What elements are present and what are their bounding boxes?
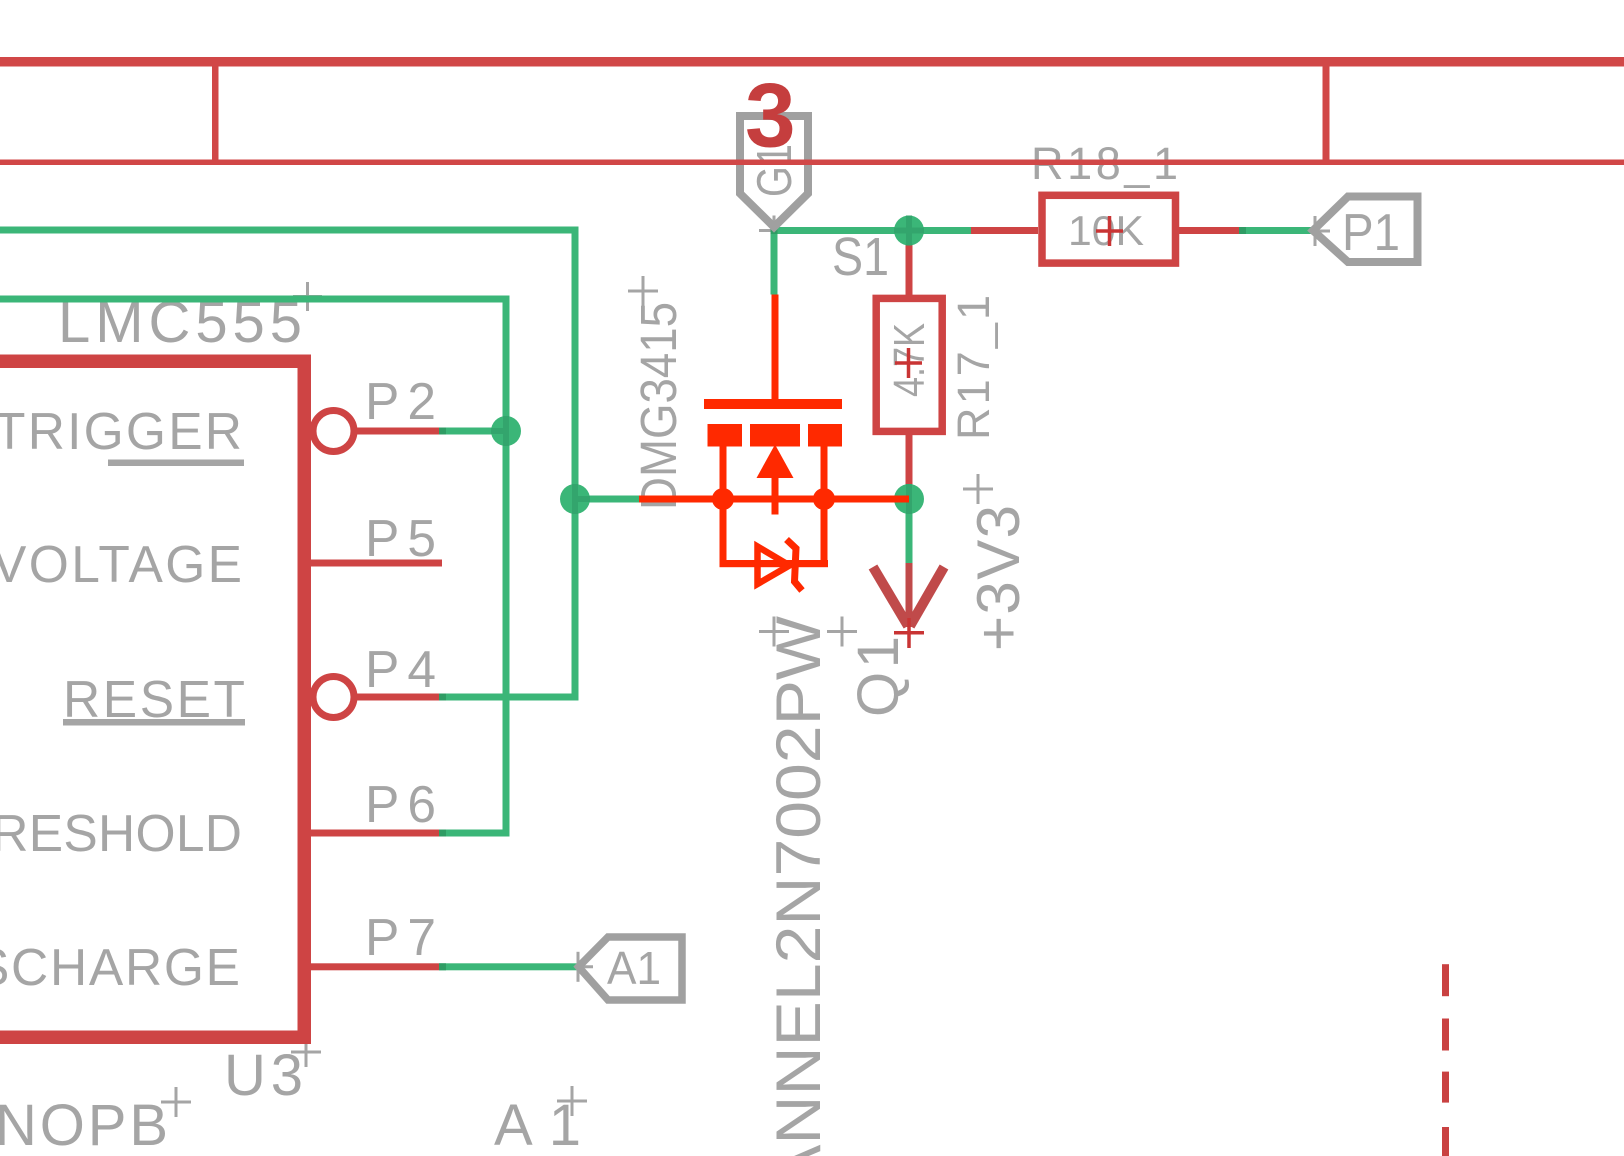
- pin line THRESHOLD P6: [311, 830, 439, 837]
- wire overlap mark R18 right: [1239, 227, 1246, 234]
- wire vertical at x506: [503, 296, 510, 837]
- resistor R18 left pin: [971, 227, 1038, 234]
- Q1 body loop bottom: [720, 560, 829, 567]
- wire RESET to vertical: [439, 694, 575, 701]
- underline TRIGGER: [108, 460, 244, 467]
- Q1 substrate stem: [772, 478, 779, 515]
- flag P1: [1313, 197, 1418, 263]
- Q1 drain stub: [821, 447, 828, 500]
- resistor R18 right pin: [1179, 227, 1246, 234]
- wire net B second horizontal: [0, 296, 510, 303]
- origin cross flag P1: [1300, 216, 1330, 246]
- Q1 body loop left: [720, 499, 727, 567]
- origin cross NOPB: [161, 1087, 191, 1117]
- Q1 body loop right: [821, 499, 828, 567]
- svg-text:R17_1: R17_1: [948, 295, 999, 440]
- pin line RESET P4: [355, 694, 439, 701]
- origin cross CHANNEL text: [759, 617, 789, 647]
- junction dot gate branch: [560, 484, 590, 514]
- supply +3V3 arrow stem: [906, 563, 913, 627]
- wire flag G1 horizontal: [771, 227, 972, 234]
- Q1 substrate arrow: [757, 445, 794, 479]
- svg-text:A1: A1: [607, 942, 661, 994]
- border dash 3: [1442, 1072, 1449, 1103]
- svg-text:U3: U3: [224, 1043, 303, 1108]
- Q1 gate bar: [704, 399, 842, 409]
- wire below drain junction: [906, 499, 913, 564]
- wire flag G1 vertical: [771, 227, 778, 295]
- wire DISCHARGE to flag A1: [439, 963, 579, 970]
- svg-text:Q1: Q1: [846, 636, 911, 717]
- wire overlap mark P7: [439, 963, 446, 970]
- U3 box bottom edge: [0, 1031, 311, 1045]
- wire net S1 top horizontal: [0, 227, 579, 234]
- wire R18 right to flag P1: [1246, 227, 1313, 234]
- resistor R17 top pin: [906, 234, 913, 299]
- svg-text:3: 3: [745, 66, 796, 167]
- resistor R18 body: [1042, 195, 1176, 263]
- junction dot drain node: [894, 484, 924, 514]
- border dash 4: [1442, 1127, 1449, 1156]
- flag A1: [579, 937, 683, 1000]
- wire overlap mark P6: [439, 830, 446, 837]
- frame top bar: [0, 57, 1624, 67]
- origin cross +3V3 tip: [894, 618, 924, 648]
- underline RESET: [63, 719, 245, 726]
- flag G1: [740, 116, 808, 227]
- wire THRESHOLD to vertical: [439, 830, 506, 837]
- Q1 source stub: [720, 447, 727, 500]
- Q1 junction dot right: [813, 488, 835, 510]
- origin cross A1 value: [557, 1086, 587, 1116]
- border dash 2: [1442, 1019, 1449, 1051]
- wire junction x575 to gate: [575, 496, 639, 503]
- resistor R17 body: [876, 298, 942, 431]
- origin cross LMC555: [293, 282, 322, 311]
- U3 box right edge: [298, 355, 312, 1045]
- transistor Q1 gate pin: [772, 295, 779, 400]
- origin cross flag A1: [563, 952, 593, 982]
- border dash 1: [1442, 964, 1449, 996]
- wire overlap mark P4: [439, 694, 446, 701]
- origin cross U3: [291, 1037, 321, 1067]
- Q1 source drain rail: [639, 496, 909, 503]
- Q1 channel segment middle: [750, 424, 800, 447]
- wire overlap mark P2: [439, 428, 446, 435]
- origin cross flag G1: [759, 216, 789, 246]
- pin line TRIGGER P2: [355, 428, 439, 435]
- Q1 body diode cathode: [787, 540, 803, 591]
- frame divider right: [1323, 67, 1330, 160]
- pin bubble RESET: [313, 677, 354, 718]
- wire overlap mark G1 corner: [771, 227, 778, 234]
- pin line DISCHARGE P7: [311, 963, 439, 970]
- junction dot net S1: [894, 216, 924, 246]
- origin cross DMG3415: [628, 276, 658, 306]
- Q1 channel segment right: [808, 424, 842, 447]
- frame divider left: [212, 67, 219, 160]
- origin cross +3V3: [963, 474, 993, 504]
- origin cross Q1: [827, 617, 857, 647]
- svg-text:CHANNEL2N7002PW: CHANNEL2N7002PW: [764, 615, 834, 1156]
- junction dot TRIGGER: [491, 416, 521, 446]
- svg-text:P1: P1: [1342, 204, 1400, 262]
- svg-text:THRESHOLD: THRESHOLD: [0, 804, 242, 862]
- svg-text:DMG3415: DMG3415: [630, 302, 687, 510]
- origin cross R17: [895, 348, 922, 378]
- Q1 channel segment left: [708, 424, 743, 447]
- wire TRIGGER to junction: [439, 428, 506, 435]
- resistor R17 bottom pin: [906, 431, 913, 488]
- Q1 body diode anode: [758, 547, 790, 585]
- wire vertical at x575: [572, 227, 579, 701]
- svg-text:+3V3: +3V3: [965, 505, 1032, 651]
- frame inner line: [0, 160, 1624, 166]
- Q1 junction dot left: [712, 488, 734, 510]
- pin bubble TRIGGER: [313, 411, 354, 452]
- op-amp U3 box top edge: [0, 355, 311, 369]
- svg-text:NOPB: NOPB: [0, 1093, 168, 1156]
- pin line VOLTAGE P5: [311, 560, 442, 567]
- svg-text:TRIGGER: TRIGGER: [0, 402, 242, 460]
- supply +3V3 arrow head: [873, 567, 944, 626]
- svg-text:S1: S1: [832, 228, 889, 287]
- origin cross R18: [1096, 216, 1123, 246]
